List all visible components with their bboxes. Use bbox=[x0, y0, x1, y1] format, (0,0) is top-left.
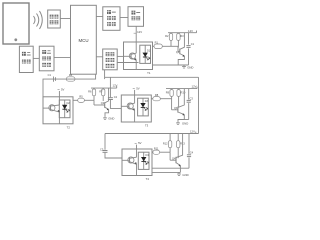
svg-text:5V: 5V bbox=[136, 87, 140, 91]
svg-text:T4: T4 bbox=[146, 177, 150, 181]
svg-text:R8: R8 bbox=[155, 93, 159, 97]
svg-text:12V: 12V bbox=[192, 84, 197, 88]
svg-text:R5: R5 bbox=[79, 95, 83, 99]
svg-text:5V: 5V bbox=[61, 88, 65, 92]
svg-text:C2: C2 bbox=[114, 95, 118, 99]
svg-text:C3: C3 bbox=[100, 148, 104, 152]
svg-text:C3: C3 bbox=[190, 96, 194, 100]
svg-text:R4: R4 bbox=[69, 73, 73, 77]
svg-text:GND: GND bbox=[108, 117, 114, 121]
svg-text:T1: T1 bbox=[147, 71, 151, 75]
svg-text:R11: R11 bbox=[154, 146, 159, 150]
svg-text:12V: 12V bbox=[190, 130, 195, 134]
svg-text:C1: C1 bbox=[191, 42, 195, 46]
svg-text:Q2: Q2 bbox=[101, 102, 105, 105]
svg-text:R1: R1 bbox=[155, 41, 159, 45]
svg-text:GND: GND bbox=[182, 173, 188, 177]
svg-text:T3: T3 bbox=[145, 124, 149, 128]
svg-text:12V: 12V bbox=[113, 83, 118, 87]
svg-text:R9: R9 bbox=[166, 90, 170, 94]
svg-text:MCU: MCU bbox=[79, 38, 89, 43]
svg-text:T2: T2 bbox=[67, 125, 71, 129]
svg-text:5V: 5V bbox=[138, 141, 142, 145]
svg-text:R10: R10 bbox=[181, 90, 186, 94]
svg-text:C1: C1 bbox=[48, 73, 52, 77]
svg-text:R3: R3 bbox=[180, 34, 184, 38]
svg-text:12V: 12V bbox=[188, 29, 193, 33]
svg-text:R2: R2 bbox=[165, 34, 169, 38]
svg-text:12V: 12V bbox=[137, 30, 142, 34]
svg-text:GND: GND bbox=[187, 65, 193, 69]
svg-text:R6: R6 bbox=[88, 90, 92, 94]
svg-text:R12: R12 bbox=[163, 142, 168, 146]
svg-text:GND: GND bbox=[182, 122, 188, 126]
svg-text:Q3: Q3 bbox=[174, 107, 178, 110]
svg-text:C4: C4 bbox=[190, 150, 194, 154]
svg-text:R7: R7 bbox=[99, 90, 103, 94]
